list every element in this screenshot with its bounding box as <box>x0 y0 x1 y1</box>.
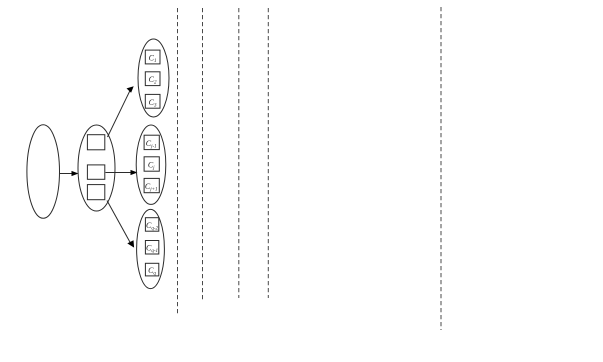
dashed guide line 1 <box>177 8 179 315</box>
criterion Cq-2 box <box>145 218 158 232</box>
dashed guide line 2 <box>202 8 204 302</box>
criterion Cj box <box>144 157 159 171</box>
dashed guide line 5 <box>440 7 442 330</box>
criterion C3 box <box>145 94 160 108</box>
node: criteria group 3 ellipse <box>137 209 165 288</box>
criterion C1 box <box>145 50 160 64</box>
criterion Cq-1 box <box>145 241 158 255</box>
dashed guide line 3 <box>238 8 240 298</box>
wire: stack to criteria group 3 <box>107 201 134 248</box>
node: source ellipse <box>27 125 60 219</box>
attribute slot 3 <box>87 185 104 200</box>
wire: source to attribute stack <box>60 171 79 176</box>
attribute slot 2 <box>87 165 104 179</box>
dashed guide line 4 <box>267 8 269 298</box>
node: attribute-stack ellipse <box>78 125 115 211</box>
node: criteria group 2 ellipse <box>136 125 166 204</box>
attribute slot 1 <box>87 135 104 150</box>
criterion Cj+1 box <box>144 178 159 192</box>
criterion C2 box <box>145 72 160 86</box>
node: criteria group 1 ellipse <box>138 39 169 117</box>
wire: stack to criteria group 2 <box>106 170 138 175</box>
criterion Cj-1 box <box>144 135 159 149</box>
wire: stack to criteria group 1 <box>108 86 134 137</box>
criterion Cq box <box>145 263 158 276</box>
